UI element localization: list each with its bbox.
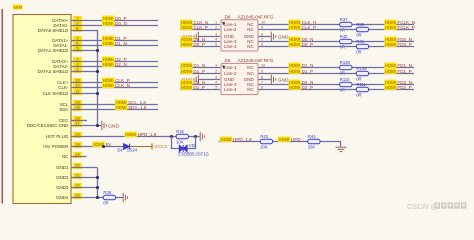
svg-text:HDMI: HDMI (289, 85, 300, 90)
wire HDMI_D2_N to D6 (180, 84, 220, 86)
junction on HDMI_5V (102, 145, 105, 148)
pin number 3 (DATA2-) (73, 62, 82, 68)
net label HDMI_CLK_P (D8 right) (289, 25, 301, 31)
svg-text:CLK_N: CLK_N (115, 83, 130, 88)
net label HDMI_D0_N (D8 left) (180, 37, 192, 43)
pin number 22 (GND3) (73, 183, 82, 189)
connector J200 body (13, 15, 71, 204)
svg-text:D1_P: D1_P (302, 69, 314, 74)
resistor R42 10K (176, 134, 188, 138)
svg-text:D2_P: D2_P (302, 85, 314, 90)
svg-text:R41: R41 (356, 39, 364, 44)
wire D6 GND pin 8 (259, 79, 271, 81)
net label HDMI_HPD_1.8 (left) (125, 132, 137, 138)
junction at R42 left (170, 135, 173, 138)
resistor R111 0R (356, 87, 368, 91)
connector J200 pin name labels (27, 18, 69, 200)
svg-text:ESD5B5.0ST1G: ESD5B5.0ST1G (178, 152, 209, 157)
svg-text:HDMI: HDMI (385, 25, 396, 30)
net label HDMI_D0_N (102, 21, 114, 27)
svg-text:0R: 0R (340, 45, 345, 50)
svg-text:HDMI: HDMI (385, 42, 396, 47)
wire HDMI_D2_P / HDMI_FD2_P (259, 89, 415, 91)
wire GND1 (71, 167, 97, 169)
pin number 8 (DATA0 SHIELD) (73, 26, 82, 32)
wire D8 GND pin 3 (199, 36, 220, 38)
wire HDMI_D2_N from connector (71, 66, 158, 68)
svg-text:HDMI: HDMI (103, 62, 114, 67)
svg-text:2: 2 (215, 70, 217, 74)
svg-text:R138: R138 (340, 60, 351, 65)
svg-text:D6: D6 (225, 58, 231, 63)
net label HDMI_FD2_P (384, 85, 396, 91)
svg-text:D1_N: D1_N (115, 41, 127, 46)
svg-text:5: 5 (215, 43, 217, 47)
svg-text:0R: 0R (356, 33, 361, 38)
junction GND4 (96, 196, 99, 199)
D6 pin names (224, 65, 255, 92)
svg-text:HDMI: HDMI (289, 25, 300, 30)
net label HDMI_D2_P (D6 left) (180, 85, 192, 91)
junction DATA1 SHIELD (96, 49, 99, 52)
pin number 12 (CLK-) (73, 83, 82, 89)
net label HDMI_D1_N (102, 41, 114, 47)
wire HDMI_D2_P from connector (71, 61, 158, 63)
net label HDMI_D1_P (102, 36, 114, 42)
net label HDMI_D2_N (D6 left) (180, 80, 192, 86)
svg-text:R36: R36 (103, 190, 111, 195)
svg-text:AZ1045-04F.RFG: AZ1045-04F.RFG (238, 14, 274, 19)
pin number 14 (NC) (73, 152, 82, 158)
svg-text:CLK-: CLK- (58, 85, 69, 90)
svg-text:HOT PLUG: HOT PLUG (46, 134, 69, 139)
pin number 18 (+5V POWER) (73, 142, 82, 148)
wire HDMI_D0_P to D8 (180, 46, 220, 48)
pin number 11 (CLK SHIELD) (73, 89, 82, 95)
svg-text:AZ1045-04F.RFG: AZ1045-04F.RFG (238, 58, 274, 63)
pin number 13 (CEC) (73, 116, 82, 122)
svg-text:CLK_P: CLK_P (302, 25, 317, 30)
svg-text:HPD: HPD (291, 137, 301, 142)
svg-text:Line-4: Line-4 (224, 44, 237, 49)
svg-text:HDMI: HDMI (279, 137, 290, 142)
svg-text:R139: R139 (356, 66, 367, 71)
net label HDMI_FD1_N (384, 63, 396, 69)
svg-text:D2_P: D2_P (193, 85, 205, 90)
svg-text:DATA2 SHIELD: DATA2 SHIELD (38, 69, 69, 74)
net label HDMI_FCLK_N (384, 20, 396, 26)
wire HDMI_D1_N from connector (71, 45, 158, 47)
svg-text:GND: GND (278, 77, 289, 83)
TVS diode VD ESD5B5.0ST1G (179, 145, 187, 152)
net label HDMI_CLK_P (102, 78, 114, 84)
wire HDMI_HPD_1.8 from HOT PLUG (71, 136, 200, 138)
svg-text:HDMI: HDMI (103, 41, 114, 46)
wire HDMI_CLK_P / HDMI_FCLK_P (259, 29, 415, 31)
wire DDC/CEC/HEC GND (71, 125, 101, 127)
net label HDMI_SDA_1.8 (115, 105, 127, 111)
wire CLK SHIELD (71, 93, 97, 95)
svg-text:3: 3 (215, 33, 217, 37)
wire NC stub (71, 156, 87, 158)
wire to VCC3 (power) (130, 146, 152, 148)
pin number 23 (GND4) (73, 193, 82, 199)
net label HDMI_D2_N (D6 right) (289, 80, 301, 86)
diode D4 SS24 (124, 144, 130, 150)
svg-text:HDMI: HDMI (103, 83, 114, 88)
net label HDMI_D2_N (102, 62, 114, 68)
svg-text:HDMI: HDMI (385, 69, 396, 74)
svg-text:HDMI: HDMI (385, 63, 396, 68)
svg-text:CLK_P: CLK_P (193, 25, 208, 30)
pin number 21 (GND2) (73, 173, 82, 179)
net label HDMI_FD0_P (384, 42, 396, 48)
svg-text:NC: NC (247, 71, 254, 76)
pin number 20 (GND1) (73, 163, 82, 169)
pin number 4 (DATA1+) (73, 36, 82, 42)
resistor R37 0R (340, 22, 352, 26)
svg-text:GND4: GND4 (56, 195, 69, 200)
svg-text:0R: 0R (340, 28, 345, 33)
net label HDMI_CLK_N (D8 right) (289, 20, 301, 26)
svg-text:R40: R40 (340, 34, 348, 39)
svg-text:0R: 0R (103, 201, 108, 206)
svg-text:R43: R43 (260, 134, 268, 139)
net label HDMI_CLK_N (102, 83, 114, 89)
svg-text:CLK SHIELD: CLK SHIELD (43, 91, 69, 96)
wire HDMI_D0_N from connector (71, 25, 158, 27)
net label HDMI_FD2_N (384, 80, 396, 86)
svg-text:20K: 20K (260, 145, 268, 150)
resistor R40 0R (340, 39, 352, 43)
junction GND2 (96, 176, 99, 179)
svg-text:NC: NC (247, 44, 254, 49)
wire DATA2 SHIELD (71, 71, 97, 73)
wire ESD diode branch left (172, 137, 179, 149)
svg-text:HPD_1.8: HPD_1.8 (138, 132, 157, 137)
svg-text:10K: 10K (176, 140, 184, 145)
svg-text:DATA1 SHIELD: DATA1 SHIELD (38, 48, 69, 53)
net label HDMI_D2_P (102, 57, 114, 63)
wire CEC stub (71, 120, 87, 122)
svg-text:FD1_N: FD1_N (397, 63, 412, 68)
svg-text:R42: R42 (176, 129, 184, 134)
junction GND3 (96, 186, 99, 189)
svg-text:HDMI: HDMI (289, 63, 300, 68)
wire HDMI_CLK_P to D8 (180, 29, 220, 31)
wire GND2 (71, 177, 97, 179)
wire HDMI_CLK_N from connector (71, 87, 158, 89)
svg-text:Line-2: Line-2 (224, 71, 237, 76)
svg-text:SDA_1.8: SDA_1.8 (128, 105, 147, 110)
wire R36 to ground (116, 197, 123, 199)
resistor R43 20K (260, 139, 272, 143)
wire HDMI_D0_N / HDMI_FD0_N (259, 41, 415, 43)
net label HDMI_SCL_1.8 (115, 100, 127, 106)
net label HDMI_D0_N (D8 right) (289, 37, 301, 43)
svg-text:FD0_P: FD0_P (397, 42, 411, 47)
net label HDMI_FCLK_P (384, 25, 396, 31)
svg-text:HDMI: HDMI (103, 21, 114, 26)
wire HDMI_D2_N / HDMI_FD2_N (259, 84, 415, 86)
net label HDMI_HPD (278, 137, 290, 143)
protection device D6 AZ1045-04F.RFG (221, 63, 258, 94)
junction at R42 right (194, 135, 197, 138)
svg-text:CSDN @: CSDN @ (407, 202, 439, 211)
svg-text:NC: NC (247, 27, 254, 32)
svg-text:HDMI: HDMI (181, 63, 192, 68)
svg-text:HDMI: HDMI (116, 105, 127, 110)
resistor R41 0R (356, 44, 368, 48)
pin number 2 (DATA2 SHIELD) (73, 67, 82, 73)
D8 pin1 marker (222, 22, 225, 26)
wire ground bus vertical (97, 168, 99, 198)
resistor R110 0R (340, 82, 352, 86)
net label HDMI_HPD_1.8 (right) (220, 137, 232, 143)
svg-text:NC: NC (247, 87, 254, 92)
net label HDMI_D0_P (D8 left) (180, 42, 192, 48)
svg-text:R111: R111 (356, 82, 366, 87)
svg-text:0R: 0R (340, 88, 345, 93)
ground symbol at R42 (200, 132, 204, 142)
svg-text:GND: GND (278, 34, 289, 40)
connector J200 designator (13, 5, 22, 10)
wire HDMI_SCL_1.8 from connector (71, 104, 158, 106)
svg-text:HDMI: HDMI (181, 69, 192, 74)
svg-text:5: 5 (215, 86, 217, 90)
net label HDMI_CLK_P (D8 left) (180, 25, 192, 31)
pin number 15 (SCL) (73, 100, 82, 106)
junction DATA2 SHIELD (96, 70, 99, 73)
svg-text:R38: R38 (356, 22, 364, 27)
ground symbol at HPD divider (336, 147, 347, 151)
svg-text:2: 2 (215, 26, 217, 30)
wire GND4 (71, 197, 103, 199)
svg-text:D0_P: D0_P (302, 42, 314, 47)
D6 right pin numbers (261, 64, 265, 90)
svg-text:20K: 20K (308, 145, 316, 150)
svg-text:HDMI: HDMI (385, 85, 396, 90)
wire D8 GND pin 8 (259, 36, 271, 38)
svg-text:D8: D8 (225, 14, 231, 19)
svg-text:R110: R110 (340, 77, 350, 82)
svg-text:GND3: GND3 (56, 185, 69, 190)
svg-text:VD: VD (189, 143, 195, 148)
wire ESD diode branch right (187, 137, 195, 149)
svg-text:Line-4: Line-4 (224, 87, 237, 92)
wire DATA1 SHIELD (71, 50, 97, 52)
pin number 6 (DATA1-) (73, 41, 82, 47)
net label HDMI_D0_P (D8 right) (289, 42, 301, 48)
svg-text:HDMI: HDMI (181, 42, 192, 47)
svg-text:GND: GND (108, 123, 119, 129)
svg-text:D2_N: D2_N (115, 62, 127, 67)
resistor R44 20K (308, 139, 320, 143)
svg-text:4: 4 (215, 38, 217, 42)
wire D6 GND pin 3 (199, 79, 220, 81)
junction shield bus to DDC GND (96, 124, 99, 127)
wire HDMI_5V from +5V POWER (71, 146, 130, 148)
svg-text:DDC/CEC/HEC GND: DDC/CEC/HEC GND (27, 123, 68, 128)
pin number 9 (DATA0-) (73, 21, 82, 27)
svg-text:HDMI: HDMI (181, 85, 192, 90)
svg-text:D1_N: D1_N (193, 63, 205, 68)
power port GND (D8 right) (271, 32, 275, 42)
svg-text:1: 1 (215, 64, 217, 68)
svg-text:SDA: SDA (59, 107, 68, 112)
svg-text:FD1_P: FD1_P (397, 69, 411, 74)
svg-text:D0_N: D0_N (115, 21, 127, 26)
wire DATA0 SHIELD to shield bus (71, 31, 98, 126)
wire HDMI_D1_N / HDMI_FD1_N (259, 67, 415, 69)
svg-text:HDMI: HDMI (125, 132, 136, 137)
svg-text:SS24: SS24 (127, 147, 138, 152)
svg-text:R44: R44 (308, 134, 316, 139)
svg-text:J200: J200 (13, 5, 22, 10)
power port GND (D6 right) (271, 75, 275, 85)
svg-text:0R: 0R (356, 93, 361, 98)
svg-text:4: 4 (215, 81, 217, 85)
svg-text:HDMI: HDMI (181, 25, 192, 30)
wire HDMI_D1_P to D6 (180, 73, 220, 75)
pin number 5 (DATA1 SHIELD) (73, 46, 82, 52)
svg-text:HPD_1.8: HPD_1.8 (233, 137, 252, 142)
svg-text:1: 1 (215, 21, 217, 25)
svg-text:HDMI: HDMI (221, 137, 232, 142)
wire HDMI_D2_P to D6 (180, 89, 220, 91)
net label HDMI_D1_N (D6 left) (180, 63, 192, 69)
svg-text:HDMI: HDMI (289, 69, 300, 74)
pin number 1 (DATA2+) (73, 57, 82, 63)
wire HDMI_D0_P from connector (71, 20, 158, 22)
pin number 10 (CLK+) (73, 78, 82, 84)
svg-text:D0_P: D0_P (193, 42, 205, 47)
net label HDMI_D1_N (D6 right) (289, 63, 301, 69)
sheet border line (1, 9, 3, 204)
svg-text:FD2_P: FD2_P (397, 85, 411, 90)
svg-text:5V: 5V (106, 142, 113, 147)
pin number 7 (DATA0+) (73, 16, 82, 22)
wire HDMI_D1_N to D6 (180, 67, 220, 69)
wire HDMI_D0_N to D8 (180, 41, 220, 43)
svg-text:R37: R37 (340, 17, 348, 22)
wire HDMI_HPD chain (219, 142, 341, 147)
resistor R138 0R (340, 65, 352, 69)
svg-text:DATA0 SHIELD: DATA0 SHIELD (38, 28, 69, 33)
svg-text:VCC3: VCC3 (154, 144, 167, 150)
resistor R36 0R (103, 195, 115, 199)
D6 left pin numbers (215, 64, 217, 90)
wire HDMI_D1_P from connector (71, 40, 158, 42)
svg-text:D4: D4 (117, 147, 123, 152)
D6 pin1 marker (222, 65, 225, 69)
resistor R38 0R (356, 27, 368, 31)
net label HDMI_5V (93, 142, 105, 148)
net label HDMI_D1_P (D6 left) (180, 69, 192, 75)
svg-text:3: 3 (215, 76, 217, 80)
svg-text:FCLK_P: FCLK_P (397, 25, 414, 30)
svg-text:D1_N: D1_N (302, 63, 314, 68)
D8 right pin numbers (261, 21, 265, 47)
svg-text:Line-1: Line-1 (224, 65, 237, 70)
svg-text:+5V POWER: +5V POWER (43, 144, 69, 149)
svg-text:Line-2: Line-2 (224, 27, 237, 32)
net label HDMI_FD1_P (384, 69, 396, 75)
ground symbol at R36 (123, 193, 127, 203)
power port GND (D6 left) (194, 75, 198, 85)
svg-text:NC: NC (247, 65, 254, 70)
net label HDMI_D0_P (102, 16, 114, 22)
pin number 17 (DDC/CEC/HEC GND) (73, 121, 82, 127)
wire HDMI_CLK_N / HDMI_FCLK_N (259, 24, 415, 26)
svg-text:GND1: GND1 (56, 165, 69, 170)
svg-text:HDMI: HDMI (289, 42, 300, 47)
wire HDMI_CLK_P from connector (71, 82, 158, 84)
pin number 16 (SDA) (73, 105, 82, 111)
wire GND3 (71, 187, 97, 189)
net label HDMI_D2_P (D6 right) (289, 85, 301, 91)
net label HDMI_FD0_N (384, 37, 396, 43)
D8 left pin numbers (215, 21, 217, 47)
ground symbol GND (DDC/CEC/HEC) (102, 121, 106, 131)
net label HDMI_D1_P (D6 right) (289, 69, 301, 75)
svg-text:NC: NC (62, 154, 68, 159)
wire HDMI_D0_P / HDMI_FD0_P (259, 46, 415, 48)
svg-text:GND2: GND2 (56, 175, 69, 180)
resistor R139 0R (356, 71, 368, 75)
svg-text:0R: 0R (356, 50, 361, 55)
power port VCC3 (151, 144, 153, 150)
junction CLK SHIELD (96, 92, 99, 95)
wire HDMI_D1_P / HDMI_FD1_P (259, 73, 415, 75)
wire HDMI_SDA_1.8 from connector (71, 109, 158, 111)
D8 pin names (224, 22, 255, 49)
pin number 19 (HOT PLUG) (73, 132, 82, 138)
svg-text:D1_P: D1_P (193, 69, 205, 74)
power port GND (D8 left) (194, 32, 198, 42)
net label HDMI_CLK_N (D8 left) (180, 20, 192, 26)
wire HDMI_CLK_N to D8 (180, 24, 220, 26)
protection device D8 AZ1045-04F.RFG (221, 20, 258, 51)
